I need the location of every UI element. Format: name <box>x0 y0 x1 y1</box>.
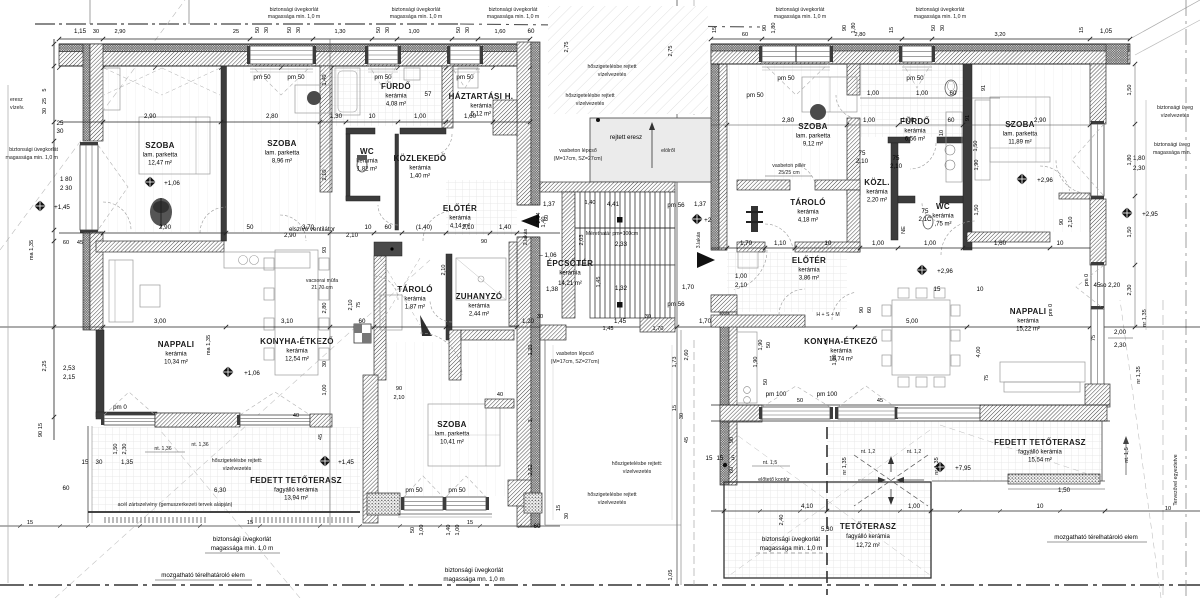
parquet szoba2 <box>227 66 320 232</box>
svg-text:60: 60 <box>948 117 955 124</box>
dim tick <box>52 415 56 419</box>
window pm100 win1 <box>759 407 833 419</box>
svg-text:30: 30 <box>264 27 270 33</box>
furniture shelf strip szoba right <box>975 100 990 180</box>
door arc eloter door <box>423 211 453 241</box>
svg-text:2,20 m²: 2,20 m² <box>867 198 887 204</box>
wall (partition) wc top right <box>400 128 446 134</box>
line <box>517 204 540 206</box>
dim tick <box>344 120 348 124</box>
comb strip 2 <box>251 517 253 523</box>
line <box>854 455 928 506</box>
svg-text:kerámia: kerámia <box>797 210 819 216</box>
svg-text:2,30: 2,30 <box>122 444 128 455</box>
svg-text:vízelvezetés: vízelvezetés <box>1161 113 1190 119</box>
svg-text:2,10: 2,10 <box>322 170 328 181</box>
dim tick <box>1088 325 1092 329</box>
svg-text:biztonsági üvegkorlát: biztonsági üvegkorlát <box>489 7 538 13</box>
svg-text:2,80: 2,80 <box>855 32 866 38</box>
dim tick <box>101 231 105 235</box>
glass sliding door <box>897 408 980 418</box>
svg-text:15: 15 <box>556 505 562 511</box>
line <box>902 66 932 68</box>
svg-text:nr 1,35: nr 1,35 <box>1142 309 1148 326</box>
svg-text:vízelv.: vízelv. <box>10 105 24 111</box>
furniture chair rl <box>882 330 891 341</box>
window swing left wall win <box>98 145 128 230</box>
wall right unit left wall <box>719 45 727 250</box>
svg-text:eresz: eresz <box>10 97 23 103</box>
wall (partition) tarolo|zuhanyzo <box>446 254 452 340</box>
wall tarolo bottom L <box>737 242 765 252</box>
svg-text:Tervezővel egyeztetve: Tervezővel egyeztetve <box>1173 454 1179 505</box>
svg-text:15: 15 <box>706 455 713 462</box>
line <box>693 0 695 115</box>
wall szoba|furdo upper <box>847 64 860 95</box>
wc toilet <box>357 158 367 172</box>
line <box>205 552 280 554</box>
svg-text:biztonsági üvegkorlát: biztonsági üvegkorlát <box>213 536 271 543</box>
dim tick <box>725 123 729 127</box>
svg-text:2,64: 2,64 <box>536 213 542 224</box>
wall eloter bottom wall <box>711 315 805 327</box>
svg-text:mozgatható térelhatároló elem: mozgatható térelhatároló elem <box>1054 534 1138 541</box>
svg-text:magassága min. 1,0 m: magassága min. 1,0 m <box>760 545 823 552</box>
wall right wall stub <box>1059 193 1090 199</box>
door arc furdo door <box>836 95 860 119</box>
dim tick <box>853 325 857 329</box>
window nappali bottom win 1 <box>101 415 158 425</box>
line <box>7 85 9 583</box>
dim tick <box>896 123 900 127</box>
svg-text:1,00: 1,00 <box>414 113 427 120</box>
svg-text:2,10: 2,10 <box>441 265 447 276</box>
line <box>114 260 116 322</box>
furniture cabinet eloter <box>738 252 758 268</box>
line <box>188 0 190 24</box>
svg-text:vízelvezetés: vízelvezetés <box>598 72 627 78</box>
stair upper flight <box>575 192 675 265</box>
door arc door x <box>832 292 855 320</box>
svg-text:KONYHA-ÉTKEZŐ: KONYHA-ÉTKEZŐ <box>804 337 878 346</box>
svg-text:60: 60 <box>63 240 69 246</box>
svg-text:magassága min. 1,0 m: magassága min. 1,0 m <box>390 14 442 20</box>
wall (partition) wc|kozlekedo <box>395 134 399 230</box>
line <box>762 66 830 68</box>
svg-text:2,75: 2,75 <box>564 42 570 53</box>
window swing r wall w1 <box>1072 124 1104 196</box>
svg-text:vízelvezetés: vízelvezetés <box>623 469 652 475</box>
toilet furdo right <box>945 80 957 96</box>
svg-text:2,80: 2,80 <box>322 303 328 314</box>
svg-text:15: 15 <box>467 520 473 526</box>
wall nappali bottom wall piece <box>155 413 200 427</box>
room label ELŐTÉR <box>443 204 477 230</box>
line <box>544 340 546 525</box>
svg-text:10: 10 <box>977 286 984 293</box>
svg-text:5: 5 <box>42 88 48 91</box>
svg-text:kerámia: kerámia <box>470 104 492 110</box>
furniture dining table <box>275 250 318 375</box>
svg-text:15,54 m²: 15,54 m² <box>1028 458 1052 464</box>
svg-text:10: 10 <box>369 113 376 120</box>
svg-text:KÖZL.: KÖZL. <box>864 178 890 187</box>
parquet szoba1 <box>104 66 220 232</box>
level marker symbol <box>144 176 156 188</box>
line <box>1185 0 1187 598</box>
svg-text:60: 60 <box>528 28 535 35</box>
line <box>671 345 673 520</box>
line <box>1128 0 1200 40</box>
svg-text:+2,96: +2,96 <box>937 268 953 275</box>
svg-text:WC: WC <box>936 202 950 211</box>
svg-text:50: 50 <box>287 27 293 33</box>
furniture sink kozl <box>404 68 420 80</box>
svg-text:50: 50 <box>410 527 416 533</box>
line <box>854 455 928 506</box>
wall right wall seg1 <box>1090 64 1106 124</box>
dim tick <box>1008 123 1012 127</box>
wall (partition) furdo bottom R <box>937 137 965 143</box>
svg-text:30: 30 <box>42 108 48 114</box>
svg-text:1,45: 1,45 <box>614 318 627 325</box>
furniture washer haztartasi <box>458 68 478 88</box>
line <box>485 404 487 466</box>
svg-text:2,90: 2,90 <box>1034 117 1047 124</box>
line <box>450 68 480 70</box>
svg-text:2,60: 2,60 <box>684 350 690 361</box>
wall (partition) kozl right wall <box>891 143 898 240</box>
wall terrace left wall ins <box>720 312 729 485</box>
svg-text:1,87 m²: 1,87 m² <box>405 305 425 311</box>
svg-text:50: 50 <box>763 379 769 385</box>
dim tick <box>52 325 56 329</box>
line <box>195 117 197 174</box>
svg-text:45: 45 <box>877 398 883 404</box>
dim tick <box>1048 246 1052 250</box>
svg-text:pm 56: pm 56 <box>667 202 685 209</box>
wall right wall seg2 <box>1090 199 1106 265</box>
furniture chair rr <box>951 330 960 341</box>
window swing r bot w1 <box>762 386 830 407</box>
line <box>162 68 220 95</box>
svg-text:45: 45 <box>1094 282 1101 289</box>
wall (partition) wc left <box>346 134 350 200</box>
svg-text:vasbeton lépcső: vasbeton lépcső <box>556 351 594 357</box>
line <box>940 425 1100 478</box>
line <box>898 479 924 481</box>
room label SZOBA <box>265 139 300 165</box>
wall bottom szoba left wall <box>363 375 378 523</box>
dim tick <box>476 37 480 41</box>
svg-text:75: 75 <box>893 155 900 162</box>
svg-text:1,37: 1,37 <box>694 201 707 208</box>
room label NAPPALI <box>158 340 195 366</box>
svg-text:mozgatható térelhatároló elem: mozgatható térelhatároló elem <box>161 572 245 579</box>
line <box>460 24 760 27</box>
svg-text:1,45: 1,45 <box>596 277 602 288</box>
svg-text:fagyálló kerámia: fagyálló kerámia <box>846 534 890 540</box>
dim tick <box>219 120 223 124</box>
line <box>0 326 1200 328</box>
svg-text:5: 5 <box>731 455 735 462</box>
comb strip 1 <box>104 517 106 523</box>
svg-text:1,70: 1,70 <box>682 284 695 291</box>
door arc window swing r <box>1040 166 1070 191</box>
svg-text:kerámia: kerámia <box>385 94 407 100</box>
line <box>711 124 1090 126</box>
dim tick <box>828 37 832 41</box>
window swing bot w1 <box>404 476 443 497</box>
dim tick <box>450 37 454 41</box>
dim tick <box>961 123 965 127</box>
line <box>1035 97 1037 162</box>
svg-text:25/25 cm: 25/25 cm <box>778 170 799 176</box>
room label ZUHANYZÓ <box>456 292 503 318</box>
wall nappali bottom pier <box>155 413 240 427</box>
svg-text:kerámia: kerámia <box>932 214 954 220</box>
line <box>1162 300 1164 598</box>
parquet szoba right2 <box>975 64 1090 232</box>
svg-text:75: 75 <box>356 302 362 308</box>
level marker symbol <box>691 213 703 225</box>
svg-text:90: 90 <box>1059 219 1065 225</box>
svg-text:kerámia: kerámia <box>798 268 820 274</box>
dim tick <box>491 120 495 124</box>
wall (partition) nappali bottom corner <box>96 412 157 419</box>
svg-text:pm 50: pm 50 <box>777 75 795 82</box>
svg-text:1,90: 1,90 <box>974 160 980 171</box>
wall top right corner ins <box>1106 44 1128 64</box>
svg-text:6,30: 6,30 <box>214 487 227 494</box>
svg-text:90: 90 <box>396 386 402 392</box>
svg-text:2,25: 2,25 <box>42 361 48 372</box>
svg-text:hőszigetelésbe rejtett: hőszigetelésbe rejtett <box>587 492 637 498</box>
tile floor eloter left <box>446 180 517 235</box>
furniture bed szoba right <box>990 97 1050 162</box>
svg-text:15,22 m²: 15,22 m² <box>1016 327 1040 333</box>
svg-text:1,80: 1,80 <box>1127 155 1133 166</box>
room label FEDETT TETŐTERASZ <box>250 476 342 502</box>
entrance arrow unit3 (right) <box>697 252 715 268</box>
svg-text:(M=17cm, SZ=27cm): (M=17cm, SZ=27cm) <box>554 156 603 162</box>
svg-text:45: 45 <box>318 434 324 440</box>
wall (partition) wc top left <box>346 128 375 134</box>
svg-text:lam. parketta: lam. parketta <box>435 432 470 438</box>
svg-text:pm 50: pm 50 <box>906 75 924 82</box>
svg-text:FEDETT TETŐTERASZ: FEDETT TETŐTERASZ <box>994 438 1086 447</box>
furniture wardrobe szoba1 <box>103 68 120 110</box>
line <box>730 430 930 575</box>
svg-text:NAPPALI: NAPPALI <box>158 340 195 349</box>
line <box>329 39 331 525</box>
line <box>88 511 360 513</box>
svg-text:magassága min. 1,0 m: magassága min. 1,0 m <box>211 545 274 552</box>
svg-text:8,96 m²: 8,96 m² <box>272 159 292 165</box>
window swing r top w2 <box>902 62 932 88</box>
wall (partition) nappali left <box>96 330 104 417</box>
dark door leaf tarolo <box>420 315 432 336</box>
wall left wall corner block <box>711 295 737 312</box>
line <box>398 516 492 518</box>
svg-text:12,72 m²: 12,72 m² <box>856 543 880 549</box>
svg-text:15: 15 <box>38 423 44 429</box>
line <box>162 68 220 95</box>
sink circles <box>239 256 248 265</box>
svg-text:1,00: 1,00 <box>916 90 929 97</box>
dim tick <box>52 120 56 124</box>
line <box>860 97 1000 99</box>
svg-text:10: 10 <box>1037 503 1044 510</box>
svg-text:pm 100: pm 100 <box>766 391 787 398</box>
roof hatch middle top <box>548 6 708 114</box>
svg-text:2,90: 2,90 <box>159 224 172 231</box>
window top window 2 <box>365 46 401 64</box>
window bottom window 1 <box>401 497 446 510</box>
dim tick <box>858 246 862 250</box>
wall left wall insulation upper <box>83 44 90 141</box>
svg-text:magassága min. 1,0 m: magassága min. 1,0 m <box>914 14 966 20</box>
wall zuhanyzo bottom band <box>461 330 514 340</box>
door arc wc door r <box>922 203 940 221</box>
svg-text:60: 60 <box>742 32 748 38</box>
furniture kitchen counter <box>224 252 310 268</box>
wall haztartasi lower wall <box>493 100 517 135</box>
dim tick <box>896 246 900 250</box>
furniture sofa nappali <box>109 260 133 322</box>
svg-text:6,56 m²: 6,56 m² <box>905 137 925 143</box>
dim tick <box>1133 263 1137 267</box>
svg-text:pm 50: pm 50 <box>405 487 423 494</box>
svg-text:50: 50 <box>766 342 772 348</box>
svg-text:2.lakás: 2.lakás <box>523 228 529 245</box>
window swing bot w2 <box>446 476 486 497</box>
dim tick <box>101 120 105 124</box>
svg-text:magassága min. 1,0 m: magassága min. 1,0 m <box>6 155 58 161</box>
room label FÜRDŐ <box>900 117 930 143</box>
line <box>711 38 1130 40</box>
dim tick <box>793 246 797 250</box>
svg-text:30: 30 <box>564 513 570 519</box>
dim tick <box>370 37 374 41</box>
svg-text:+1,45: +1,45 <box>338 459 354 466</box>
svg-text:ELŐTÉR: ELŐTÉR <box>792 256 826 265</box>
wall (partition) wc top L <box>898 196 915 203</box>
window top window 3 <box>447 46 483 64</box>
svg-text:2,03: 2,03 <box>579 235 585 246</box>
dim tick <box>372 231 376 235</box>
svg-text:30: 30 <box>385 27 391 33</box>
svg-text:3,20: 3,20 <box>995 32 1006 38</box>
svg-text:1,00: 1,00 <box>409 29 420 35</box>
furniture chair rl <box>882 355 891 366</box>
svg-text:1,38: 1,38 <box>546 286 559 293</box>
dim tick <box>224 325 228 329</box>
line <box>693 340 695 585</box>
dim tick <box>395 37 399 41</box>
dim tick <box>709 37 713 41</box>
svg-text:13,94 m²: 13,94 m² <box>284 496 308 502</box>
svg-text:kerámia: kerámia <box>404 297 426 303</box>
svg-text:lam. parketta: lam. parketta <box>796 134 831 140</box>
line <box>428 434 500 436</box>
svg-text:acél zártszelvény (gemuszerkez: acél zártszelvény (gemuszerkezeti tervek… <box>118 502 233 508</box>
line <box>545 524 681 526</box>
furniture wardrobe szoba r1 <box>802 77 857 112</box>
wall party wall ins upper <box>531 42 540 205</box>
svg-text:1,60: 1,60 <box>495 29 506 35</box>
svg-text:2,80: 2,80 <box>266 113 279 120</box>
line <box>1047 541 1147 543</box>
svg-text:1,50: 1,50 <box>1127 227 1133 238</box>
svg-text:1,00: 1,00 <box>908 503 921 510</box>
window swing top w1 <box>250 64 313 95</box>
svg-text:25: 25 <box>42 98 48 104</box>
svg-text:1,00: 1,00 <box>867 90 880 97</box>
line <box>59 121 530 123</box>
wall bottom szoba right corner <box>508 480 531 506</box>
line <box>0 584 1200 586</box>
svg-text:10: 10 <box>1165 506 1171 512</box>
svg-text:15: 15 <box>672 405 678 411</box>
svg-text:45: 45 <box>824 339 830 345</box>
line <box>456 258 506 300</box>
dim tick <box>101 325 105 329</box>
door arc kozlekedo door <box>430 134 452 156</box>
entrance arrow unit2 (left) <box>521 214 539 228</box>
coat rack dark <box>751 206 758 232</box>
svg-text:H + S + M: H + S + M <box>816 312 839 318</box>
furniture counter furdo right <box>946 112 962 182</box>
line <box>711 249 727 251</box>
svg-text:11,89 m²: 11,89 m² <box>1008 140 1031 146</box>
svg-text:1,70: 1,70 <box>740 240 753 247</box>
svg-text:4,08 m²: 4,08 m² <box>386 102 406 108</box>
svg-text:ÉPCSŐTÉR: ÉPCSŐTÉR <box>547 259 593 268</box>
svg-text:1,40 m²: 1,40 m² <box>410 174 430 180</box>
room label KÖZL. <box>864 178 890 204</box>
svg-text:2,10: 2,10 <box>348 300 354 311</box>
dim tick <box>1088 37 1092 41</box>
dim tick <box>52 228 56 232</box>
svg-text:2,00: 2,00 <box>1114 329 1127 336</box>
line <box>711 43 1130 45</box>
wall nappali bottom wall <box>980 405 1107 421</box>
furniture bathtub furdo <box>335 68 360 115</box>
svg-text:1,00: 1,00 <box>735 273 748 280</box>
dim tick <box>1133 62 1137 66</box>
svg-text:40: 40 <box>293 413 299 419</box>
dim tick <box>722 509 726 513</box>
svg-text:Mérethatár pm=100cm: Mérethatár pm=100cm <box>586 231 638 237</box>
room label FEDETT TETŐTERASZ <box>994 438 1086 464</box>
svg-text:90: 90 <box>481 239 487 245</box>
svg-text:1 80: 1 80 <box>60 176 73 183</box>
svg-text:1,00: 1,00 <box>419 525 425 536</box>
dim tick <box>372 325 376 329</box>
wall furdo|haztartasi <box>442 66 453 128</box>
svg-text:3,10: 3,10 <box>281 318 294 325</box>
wall right wall corner block <box>1085 384 1110 407</box>
pier dark block <box>374 242 402 256</box>
svg-text:(M=17cm, SZ=27cm): (M=17cm, SZ=27cm) <box>551 359 600 365</box>
furniture sofa right <box>1000 362 1085 382</box>
svg-text:1,15: 1,15 <box>74 28 87 35</box>
svg-text:15: 15 <box>889 27 895 33</box>
dim tick <box>930 37 934 41</box>
line <box>59 65 530 67</box>
dim tick <box>1128 37 1132 41</box>
